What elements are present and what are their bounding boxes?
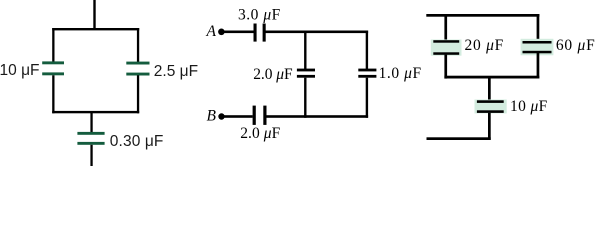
- svg-text:20 μF: 20 μF: [465, 37, 504, 54]
- wire right branch upper (right circuit): [537, 14, 540, 41]
- wire center vertical upper (right circuit): [488, 76, 491, 100]
- capacitor 3.0 uF plates: [254, 24, 266, 42]
- capacitor 1.0 uF plates: [358, 69, 376, 78]
- wire middle rail (right circuit): [444, 76, 539, 79]
- svg-text:0.30 μF: 0.30 μF: [110, 133, 164, 150]
- capacitor 60 uF: [521, 39, 554, 56]
- svg-text:2.0 μF: 2.0 μF: [253, 66, 293, 83]
- svg-text:1.0 μF: 1.0 μF: [379, 65, 422, 82]
- wire right branch upper (left circuit): [137, 28, 139, 62]
- wire right branch lower (left circuit): [137, 75, 139, 113]
- svg-text:10 μF: 10 μF: [510, 98, 548, 115]
- wire middle branch lower (middle circuit): [304, 78, 306, 118]
- svg-text:60 μF: 60 μF: [556, 37, 595, 54]
- wire center vertical lower (right circuit): [488, 113, 491, 140]
- capacitor 2.0 uF bottom plates: [253, 106, 267, 125]
- svg-text:B: B: [207, 107, 217, 124]
- wire A to capacitor (middle circuit): [224, 31, 255, 34]
- svg-text:10 μF: 10 μF: [0, 62, 40, 79]
- wire right branch lower (middle circuit): [366, 78, 368, 118]
- node B: [218, 113, 224, 119]
- wire right branch lower (right circuit): [537, 53, 540, 79]
- wire left branch lower (left circuit): [52, 75, 54, 113]
- capacitor 10 uF: [475, 100, 507, 114]
- wire left branch lower (right circuit): [444, 55, 447, 79]
- capacitor 10 uF plates: [42, 61, 64, 75]
- wire bottom lead upper (left circuit): [90, 111, 92, 132]
- wire top rail (right circuit): [426, 14, 539, 17]
- capacitor 20 uF: [431, 40, 462, 56]
- wire left branch upper (right circuit): [444, 14, 447, 40]
- wire capacitor to right branch (middle circuit top): [266, 31, 369, 34]
- capacitor 0.30 uF plates: [77, 132, 104, 145]
- wire bottom lead lower (left circuit): [90, 145, 92, 166]
- svg-text:2.5 μF: 2.5 μF: [154, 63, 198, 80]
- wire capacitor to right branch (middle circuit bottom): [267, 115, 369, 118]
- wire middle branch upper (middle circuit): [304, 31, 306, 70]
- wire bottom lead (right circuit): [427, 137, 491, 140]
- wire bottom rail (left circuit): [52, 111, 139, 113]
- capacitor 2.5 uF plates: [126, 62, 149, 76]
- wire B to capacitor (middle circuit): [224, 115, 253, 118]
- svg-text:A: A: [206, 23, 217, 40]
- wire top rail (left circuit): [52, 28, 139, 30]
- capacitor 2.0 uF middle plates: [297, 69, 315, 78]
- wire left branch upper (left circuit): [52, 28, 54, 62]
- svg-text:2.0 μF: 2.0 μF: [240, 125, 280, 142]
- wire right branch upper (middle circuit): [366, 31, 368, 70]
- wire top lead (left circuit): [93, 0, 95, 30]
- node A: [218, 29, 225, 36]
- svg-text:3.0 μF: 3.0 μF: [238, 6, 281, 23]
